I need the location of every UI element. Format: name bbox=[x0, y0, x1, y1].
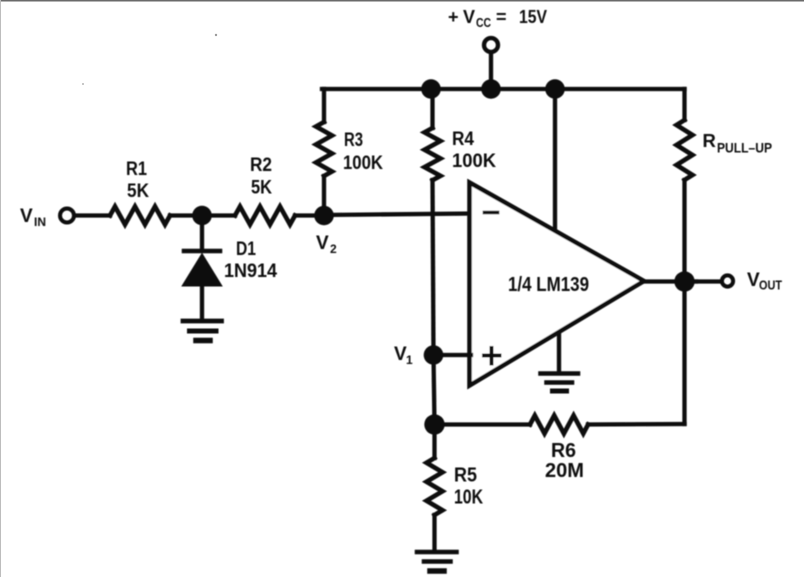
wire: comparator output to node bbox=[642, 279, 696, 283]
svg-text:V: V bbox=[463, 7, 475, 27]
svg-text:R5: R5 bbox=[454, 465, 477, 487]
resistor R1 5K bbox=[110, 207, 170, 225]
svg-text:R: R bbox=[703, 130, 716, 151]
wire: Vcc stem bbox=[489, 53, 493, 89]
svg-text:10K: 10K bbox=[454, 486, 483, 509]
svg-text:1/4 LM139: 1/4 LM139 bbox=[508, 273, 589, 296]
resistor R2 5K bbox=[235, 207, 295, 225]
diode D1 cathode bar bbox=[184, 249, 220, 254]
resistor R6 20M bbox=[530, 416, 588, 434]
scan border top bbox=[0, 0, 804, 2]
svg-text:100K: 100K bbox=[452, 151, 496, 172]
wire: R6 left lead to node B bbox=[435, 422, 531, 426]
svg-text:R2: R2 bbox=[250, 155, 272, 176]
wire: R1 to node A bbox=[170, 213, 235, 217]
svg-text:R3: R3 bbox=[344, 130, 363, 151]
wire: R5 to ground bbox=[432, 515, 436, 549]
wire: R4 down to node V1 (crosses inverting wire) bbox=[433, 180, 434, 355]
ground symbol under comparator bbox=[541, 371, 579, 376]
wire: rail to R3 bbox=[322, 89, 326, 122]
svg-text:1N914: 1N914 bbox=[224, 261, 277, 282]
node V2 junction dot bbox=[314, 206, 334, 226]
resistor R5 10K bbox=[427, 458, 443, 515]
wire: top supply rail bbox=[322, 87, 685, 91]
svg-text:CC: CC bbox=[476, 16, 491, 30]
svg-text:15V: 15V bbox=[519, 7, 547, 27]
Vcc terminal circle bbox=[484, 38, 498, 52]
non-inverting input plus sign bbox=[484, 348, 500, 364]
junction dot rail/comparator supply bbox=[545, 79, 565, 99]
svg-text:5K: 5K bbox=[251, 178, 272, 199]
scan speck 2 bbox=[82, 83, 84, 85]
wire: output node to Vout terminal bbox=[696, 279, 720, 283]
svg-text:V: V bbox=[20, 206, 33, 227]
wire: R2 to node V2 bbox=[295, 213, 324, 217]
svg-text:100K: 100K bbox=[343, 153, 383, 174]
wire: rail to comparator V+ pin bbox=[553, 89, 557, 229]
node V1 junction dot bbox=[424, 345, 444, 365]
output node junction dot bbox=[674, 271, 694, 291]
wire: node B to R5 bbox=[432, 425, 436, 459]
svg-text:2: 2 bbox=[330, 242, 337, 256]
svg-text:R4: R4 bbox=[452, 129, 474, 150]
svg-text:D1: D1 bbox=[236, 239, 256, 260]
svg-text:20M: 20M bbox=[545, 459, 584, 482]
ground symbol under R5 bbox=[417, 550, 457, 555]
resistor Rpull-up bbox=[677, 120, 693, 180]
resistor R4 100K bbox=[425, 128, 441, 180]
svg-text:PULL–UP: PULL–UP bbox=[717, 140, 772, 156]
resistor R3 100K bbox=[316, 122, 332, 176]
wire: rail to R4 bbox=[430, 89, 434, 128]
wire: output node down to R6 row bbox=[682, 282, 686, 425]
svg-text:1: 1 bbox=[406, 353, 413, 367]
wire: R3 to node V2 bbox=[322, 176, 326, 216]
wire: R6 right lead bbox=[588, 422, 685, 427]
svg-text:R1: R1 bbox=[126, 159, 147, 180]
output terminal circle bbox=[722, 275, 733, 286]
wire: input lead to R1 bbox=[75, 213, 110, 217]
junction dot rail/R4 bbox=[421, 79, 441, 99]
inverting input minus sign bbox=[485, 211, 498, 215]
wire: diode to ground bbox=[200, 285, 204, 318]
svg-text:V: V bbox=[316, 233, 329, 254]
wire: Rpullup to output node bbox=[682, 180, 686, 282]
wire: diode stem from node A bbox=[200, 216, 204, 251]
svg-text:5K: 5K bbox=[127, 181, 149, 202]
scan speck 1 bbox=[215, 34, 217, 36]
svg-text:+: + bbox=[448, 7, 459, 27]
junction dot rail/Vcc bbox=[481, 79, 501, 99]
svg-text:=: = bbox=[496, 7, 507, 27]
wire: V2 to comparator inverting input bbox=[324, 214, 471, 216]
node A junction dot (R1/R2/D1) bbox=[192, 206, 212, 226]
comparator ground pin wire bbox=[557, 333, 561, 371]
svg-text:OUT: OUT bbox=[759, 279, 782, 293]
ground symbol under D1 bbox=[183, 319, 222, 324]
diode D1 anode triangle bbox=[183, 255, 221, 286]
node B junction dot (V1/R5/R6) bbox=[424, 414, 444, 434]
wire: node B up to V1 bbox=[434, 355, 435, 425]
scan border left bbox=[0, 0, 1, 577]
svg-text:IN: IN bbox=[34, 215, 46, 229]
input terminal circle bbox=[60, 209, 74, 223]
wire: V1 to non-inverting input bbox=[434, 353, 472, 357]
wire: rail right end to Rpullup bbox=[682, 89, 686, 120]
op-amp U1 triangle 1/4 LM139 bbox=[470, 183, 645, 386]
